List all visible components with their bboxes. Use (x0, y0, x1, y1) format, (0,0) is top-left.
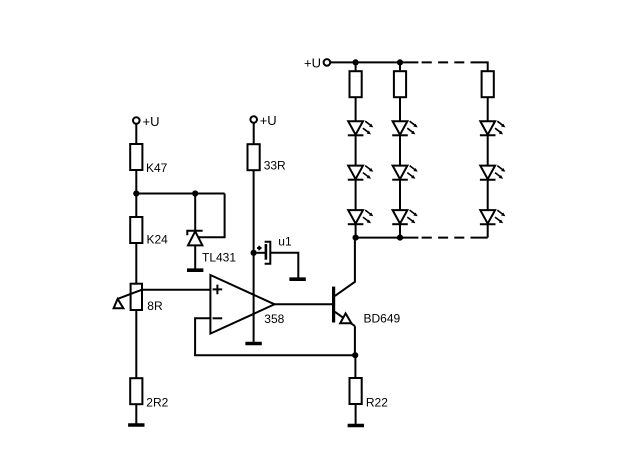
wire +U to 33R (253, 123, 255, 144)
svg-text:8R: 8R (147, 299, 163, 313)
resistor K47 (130, 144, 142, 170)
wire rail to ballast resistor column 1 (355, 62, 357, 71)
wire rail to ballast resistor column 2 (399, 62, 401, 71)
TL431 cathode bar (187, 231, 202, 236)
svg-text:K24: K24 (147, 233, 169, 247)
ground (capacitor u1) (289, 278, 305, 280)
svg-text:TL431: TL431 (202, 250, 236, 264)
ballast resistor column 2 (394, 71, 406, 97)
wire D1 to D2 (355, 135, 357, 165)
svg-text:33R: 33R (264, 159, 286, 173)
wire top rail dashed segment (422, 61, 465, 63)
ground (R22) (348, 425, 364, 427)
wire D7 to D8 (487, 135, 489, 165)
wire K47 to K24 (135, 170, 137, 217)
svg-text:u1: u1 (278, 235, 292, 249)
node junction top rail column 2 (397, 59, 403, 65)
transistor Q1 emitter arrowhead (340, 313, 351, 323)
LED D4 (392, 121, 418, 135)
transistor Q1 emitter (335, 312, 355, 326)
wire bottom rail solid segment (356, 237, 419, 239)
ground (left rail) (128, 424, 144, 426)
TL431 reference wire (198, 194, 224, 238)
wire D4 to D5 (399, 135, 401, 165)
svg-text:K47: K47 (146, 161, 168, 175)
wire top rail solid segment (330, 61, 418, 63)
wire TL431 cathode up to node (194, 194, 196, 232)
node junction cap u1 tap (251, 250, 257, 256)
wire D3 to bottom rail (355, 224, 357, 237)
svg-text:+U: +U (260, 113, 277, 128)
wire bottom rail right segment (471, 237, 488, 239)
LED D6 (392, 210, 418, 224)
transistor Q1 collector (335, 237, 355, 296)
wire D8 to D9 (487, 180, 489, 210)
wire TL431 anode to ground (194, 245, 196, 268)
node junction left rail / TL431 branch (133, 190, 139, 196)
node junction TL431 top (192, 190, 198, 196)
svg-text:BD649: BD649 (364, 311, 401, 325)
terminal +U (LED rail) (324, 59, 331, 66)
wire +U to K47 (135, 124, 137, 144)
op-amp minus input marking (213, 317, 223, 319)
wire bottom rail dashed segment (422, 237, 465, 239)
wire potentiometer to 2R2 (135, 310, 137, 378)
wire node to capacitor u1 (254, 252, 265, 254)
LED D8 (480, 166, 506, 180)
LED D1 (348, 121, 374, 135)
svg-text:+U: +U (304, 56, 321, 71)
LED D5 (392, 166, 418, 180)
TL431 triangle (188, 231, 202, 245)
potentiometer 8R wiper arrowhead (114, 299, 124, 308)
ballast resistor column 1 (350, 71, 362, 97)
wire D5 to D6 (399, 180, 401, 210)
op-amp plus input marking (213, 285, 223, 295)
ballast resistor column 3 (482, 71, 494, 97)
svg-text:358: 358 (264, 312, 284, 326)
ground (TL431) (187, 269, 203, 271)
wire node to TL431 cathode branch (136, 193, 224, 195)
wire feedback from op-amp - input (195, 318, 355, 355)
ground (op-amp) (245, 343, 261, 345)
terminal +U (left supply) (133, 117, 140, 124)
LED D2 (348, 166, 374, 180)
node junction bottom rail column 2 (397, 235, 403, 241)
wire K24 to potentiometer (135, 243, 137, 284)
node junction bottom rail column 1 (353, 235, 359, 241)
wire emitter down to feedback node (354, 326, 356, 355)
svg-text:+U: +U (143, 114, 160, 129)
wire resistor to LED chain column 1 (355, 97, 357, 121)
wire capacitor u1 to ground (270, 253, 298, 278)
wire 2R2 to ground (135, 404, 137, 423)
svg-text:R22: R22 (366, 395, 388, 409)
wire D2 to D3 (355, 180, 357, 210)
capacitor u1 polarity plus (257, 246, 261, 250)
capacitor u1 positive plate (265, 244, 268, 260)
wire D6 to bottom rail (399, 224, 401, 237)
resistor K24 (130, 217, 142, 243)
op-amp V+/V- supply pin line through body to ground (253, 294, 255, 342)
wire R22 to ground (355, 404, 357, 424)
resistor 33R (248, 144, 260, 170)
svg-text:2R2: 2R2 (146, 396, 168, 410)
capacitor u1 negative bracket plate (265, 242, 271, 264)
resistor 2R2 (130, 378, 142, 404)
wire 33R down to op-amp V+ pin (253, 170, 255, 296)
LED D3 (348, 210, 374, 224)
LED D9 (480, 210, 506, 224)
node junction emitter / feedback / R22 (352, 352, 358, 358)
potentiometer 8R body (131, 284, 142, 310)
op-amp U1 triangle (210, 275, 274, 334)
potentiometer 8R wiper diagonal (118, 290, 142, 299)
node junction top rail column 1 (353, 59, 359, 65)
wire op-amp output to transistor base (275, 303, 333, 305)
resistor R22 (350, 378, 362, 404)
wire top rail right segment to column 3 (471, 62, 488, 71)
wire node to R22 (354, 355, 356, 378)
LED D7 (480, 121, 506, 135)
wire D9 to bottom rail (487, 224, 489, 237)
transistor Q1 base bar (332, 287, 335, 323)
terminal +U (middle supply) (250, 116, 257, 123)
wire resistor to LED chain column 3 (487, 97, 489, 121)
wire resistor to LED chain column 2 (399, 97, 401, 121)
wire potentiometer wiper to op-amp + input (142, 289, 210, 291)
